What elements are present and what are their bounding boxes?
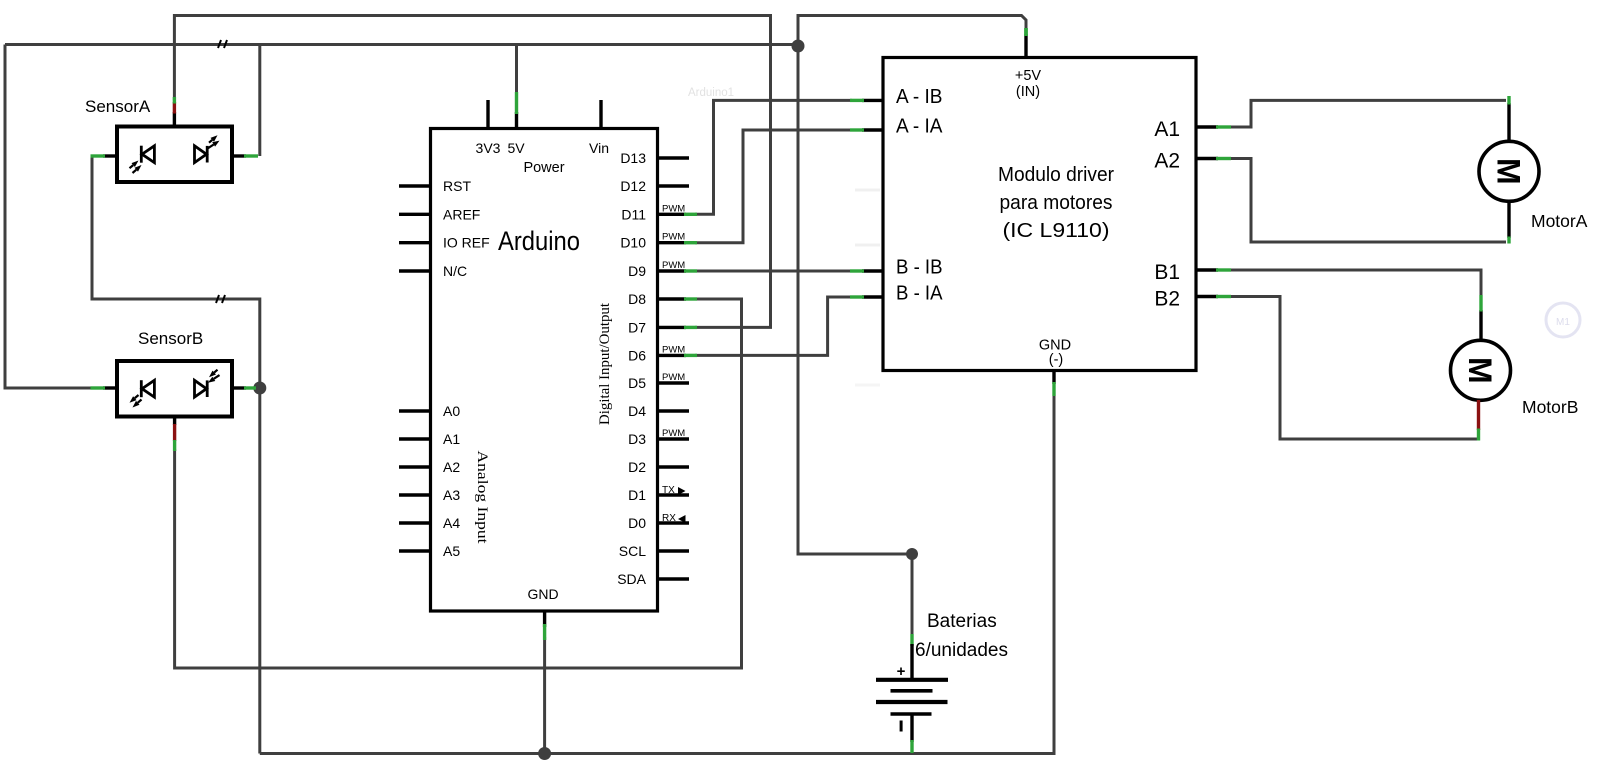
wire: SensorA right pin drop from 5V rail — [258, 45, 261, 157]
SensorA right pin — [232, 154, 246, 157]
svg-text:PWM: PWM — [662, 232, 685, 243]
module GND (-) pin — [1052, 370, 1055, 384]
wire: A2 to MotorA bottom — [1230, 159, 1506, 243]
svg-text:GND: GND — [527, 586, 558, 602]
svg-text:B - IA: B - IA — [896, 282, 943, 305]
module pin A - IA — [862, 128, 883, 131]
wire hop marks "11" on 5V rail — [218, 40, 221, 48]
module pin B - IB — [862, 269, 883, 272]
MotorB top leg — [1479, 310, 1482, 341]
module +5V (IN) pin — [1024, 34, 1027, 58]
svg-text:Arduino1: Arduino1 — [688, 87, 734, 99]
svg-text:TX: TX — [662, 485, 675, 496]
svg-text:A4: A4 — [443, 515, 460, 531]
svg-text:PWM: PWM — [662, 344, 685, 355]
Arduino pin D8 — [658, 297, 686, 300]
svg-text:5V: 5V — [507, 140, 525, 156]
svg-text:PWM: PWM — [662, 372, 685, 383]
wire: D6 to B-IA — [695, 297, 852, 355]
junction dot battery plus branch — [906, 548, 918, 560]
svg-text:PWM: PWM — [662, 260, 685, 271]
svg-text:D6: D6 — [628, 347, 646, 363]
svg-text:A3: A3 — [443, 487, 460, 503]
svg-text:+: + — [897, 663, 906, 680]
Arduino pin IO REF — [399, 241, 430, 244]
svg-text:Arduino: Arduino — [498, 226, 580, 256]
Arduino pin AREF — [399, 213, 430, 216]
svg-text:(IC L9110): (IC L9110) — [1003, 219, 1110, 242]
svg-text:D13: D13 — [620, 150, 646, 166]
svg-text:SensorB: SensorB — [138, 329, 203, 348]
motor MotorA — [1479, 141, 1539, 201]
svg-text:D9: D9 — [628, 263, 646, 279]
battery plus leg — [910, 634, 913, 646]
sensor box SensorB — [117, 361, 232, 417]
wire: B2 to MotorB bottom — [1230, 297, 1479, 440]
Arduino pin D12 — [658, 184, 689, 187]
svg-text:D2: D2 — [628, 459, 646, 475]
Arduino pin SCL — [658, 549, 689, 552]
Arduino pin D0 — [658, 521, 689, 524]
SensorB photodiode arrows — [135, 395, 139, 398]
SensorB bottom pin leg — [173, 417, 176, 426]
wire: junction up to driver +5V pin — [798, 16, 1026, 47]
svg-text:RX: RX — [662, 513, 676, 524]
Arduino pin 5V (connected) — [515, 112, 518, 128]
svg-text:para motores: para motores — [1000, 191, 1113, 214]
SensorA photodiode — [141, 146, 154, 163]
junction dot Arduino GND on ground rail — [538, 747, 551, 760]
wire: B1 to MotorB top — [1230, 270, 1481, 297]
junction dot 5V rail / +5V / battery — [792, 40, 805, 53]
svg-text:D1: D1 — [628, 487, 646, 503]
wire hop marks on sensor ground link — [216, 295, 219, 303]
Arduino pin SDA — [658, 577, 689, 580]
svg-text:D5: D5 — [628, 375, 646, 391]
wire: D9 to B-IB — [695, 270, 852, 273]
svg-text:(-): (-) — [1049, 352, 1064, 368]
svg-text:B - IB: B - IB — [896, 256, 943, 279]
Arduino pin A1 — [399, 437, 430, 440]
battery minus leg — [910, 714, 913, 742]
wire: Arduino GND drop to ground rail — [543, 637, 546, 754]
svg-text:D4: D4 — [628, 403, 646, 419]
Arduino pin D13 — [658, 156, 689, 159]
Arduino pin D2 — [658, 465, 689, 468]
svg-text:PWM: PWM — [662, 203, 685, 214]
Arduino pin A4 — [399, 521, 430, 524]
svg-text:A - IA: A - IA — [896, 115, 943, 138]
module pin A - IB — [862, 99, 883, 102]
MotorA top leg — [1507, 103, 1510, 142]
svg-text:B2: B2 — [1154, 288, 1180, 311]
SensorB right pin — [232, 386, 246, 389]
Arduino pin D10 — [658, 241, 686, 244]
Arduino pin A5 — [399, 549, 430, 552]
svg-text:A2: A2 — [443, 459, 460, 475]
module pin B2 — [1196, 295, 1218, 298]
SensorA LED arrows — [209, 140, 212, 143]
svg-text:D12: D12 — [620, 178, 646, 194]
svg-text:Baterias: Baterias — [927, 611, 997, 632]
sensor box SensorA — [117, 127, 232, 183]
SensorA top pin leg — [173, 112, 176, 127]
svg-text:MotorB: MotorB — [1522, 397, 1578, 417]
Arduino pin D5 — [658, 381, 689, 384]
svg-text:Vin: Vin — [589, 140, 609, 156]
Arduino pin D7 — [658, 326, 686, 329]
svg-text:A - IB: A - IB — [896, 85, 943, 108]
svg-text:D11: D11 — [621, 206, 646, 222]
wire: SensorA left pin to SensorB right pin and ground rail — [92, 156, 260, 754]
SensorB LED — [195, 380, 208, 397]
svg-text:SDA: SDA — [617, 571, 646, 587]
Arduino pin D1 — [658, 493, 689, 496]
MotorB bottom leg — [1477, 400, 1480, 430]
module pin A1 — [1196, 125, 1218, 128]
wire: ground rail bottom to driver GND — [260, 394, 1054, 754]
wire: SensorA top to D7 via top rail — [174, 16, 770, 328]
module pin B1 — [1196, 268, 1218, 271]
ghost module pin labels (faded) — [892, 68, 1158, 334]
svg-text:M: M — [1491, 158, 1527, 185]
svg-text:+5V: +5V — [1015, 68, 1042, 84]
wire: 5V rail left drop to SensorB left pin — [5, 45, 92, 389]
SensorB LED arrows — [214, 370, 217, 373]
svg-text:SCL: SCL — [619, 543, 646, 559]
svg-text:(IN): (IN) — [1016, 84, 1040, 100]
svg-text:D10: D10 — [620, 235, 646, 251]
Arduino pin A0 — [399, 409, 430, 412]
MotorA bottom leg — [1507, 201, 1510, 238]
svg-text:N/C: N/C — [443, 263, 467, 279]
svg-text:RST: RST — [443, 178, 471, 194]
wire: Arduino 5V riser to 5V rail — [515, 45, 518, 97]
wire: A1 to MotorA top — [1230, 100, 1506, 127]
motor MotorB — [1451, 340, 1511, 400]
SensorA left pin — [103, 154, 117, 157]
Arduino pin D4 — [658, 409, 689, 412]
battery minus sign (rotated) — [900, 721, 903, 732]
Arduino pin N/C — [399, 269, 430, 272]
Arduino pin D9 — [658, 269, 686, 272]
svg-text:A1: A1 — [1154, 118, 1180, 141]
svg-text:MotorA: MotorA — [1531, 211, 1588, 231]
svg-text:B1: B1 — [1154, 261, 1180, 284]
svg-text:D3: D3 — [628, 431, 646, 447]
svg-text:A0: A0 — [443, 403, 460, 419]
svg-text:A1: A1 — [443, 431, 460, 447]
svg-text:6/unidades: 6/unidades — [915, 640, 1008, 661]
Arduino U1 body — [431, 129, 658, 612]
svg-text:AREF: AREF — [443, 206, 480, 222]
svg-text:D8: D8 — [628, 291, 646, 307]
svg-text:Analog Input: Analog Input — [474, 451, 490, 545]
svg-text:Power: Power — [523, 160, 564, 176]
svg-text:Modulo driver: Modulo driver — [998, 163, 1114, 186]
Arduino pin GND (connected) — [543, 611, 546, 627]
svg-text:3V3: 3V3 — [476, 140, 501, 156]
svg-text:D7: D7 — [628, 319, 646, 335]
svg-text:IO REF: IO REF — [443, 235, 490, 251]
wire: D11 to A-IB — [695, 100, 852, 214]
ghost motor circle M1 (faded) — [1546, 303, 1580, 337]
ghost faded stub lines inside module — [855, 189, 880, 192]
Arduino pin A2 — [399, 465, 430, 468]
module pin A2 — [1196, 157, 1218, 160]
motor driver module U2 body — [883, 58, 1196, 371]
wire: junction down to battery plus — [798, 46, 912, 636]
Arduino pin Vin — [599, 100, 602, 128]
Arduino pin D6 — [658, 354, 686, 357]
svg-text:PWM: PWM — [662, 428, 685, 439]
svg-text:A2: A2 — [1154, 150, 1180, 173]
svg-text:M: M — [1462, 357, 1498, 384]
Arduino pin D3 — [658, 437, 689, 440]
svg-text:D0: D0 — [628, 515, 646, 531]
Arduino pin RST — [399, 184, 430, 187]
battery plates — [876, 678, 948, 682]
SensorB left pin — [103, 386, 117, 389]
SensorA LED — [195, 146, 208, 163]
svg-text:M1: M1 — [1556, 317, 1570, 328]
svg-text:SensorA: SensorA — [85, 97, 151, 116]
svg-text:A5: A5 — [443, 543, 460, 559]
wire: D10 to A-IA — [695, 130, 852, 243]
SensorA photodiode arrows — [130, 165, 134, 168]
SensorB photodiode — [141, 380, 154, 397]
Arduino pin 3V3 — [486, 100, 489, 128]
module pin B - IA — [862, 295, 883, 298]
Arduino pin D11 — [658, 213, 686, 216]
Arduino pin A3 — [399, 493, 430, 496]
svg-text:Digital Input/Output: Digital Input/Output — [597, 302, 613, 425]
junction dot SensorB right pin — [253, 382, 266, 395]
wire: 5V rail (Arduino 5V / SensorB left / junction) — [5, 43, 798, 46]
wire: D8 to SensorB bottom — [175, 299, 742, 668]
